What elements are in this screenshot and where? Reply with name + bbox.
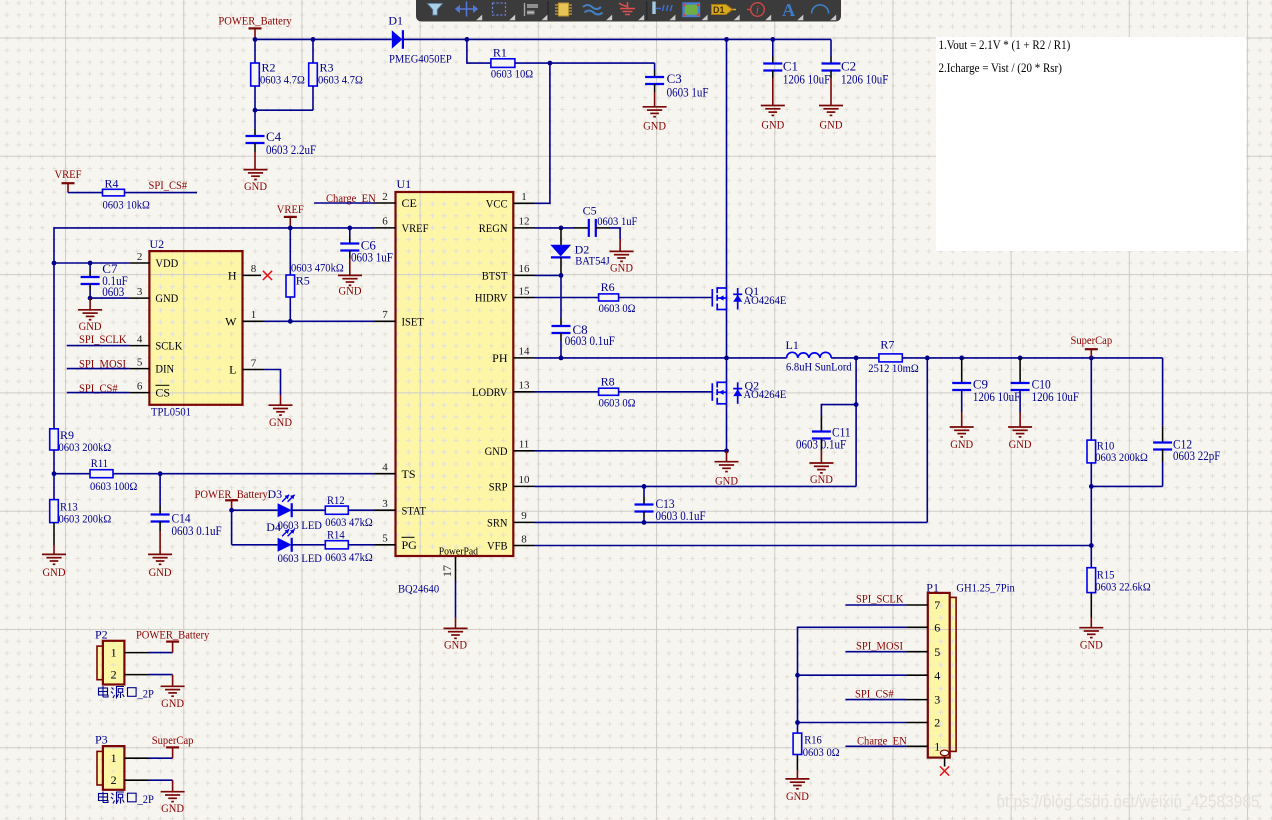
svg-text:6.8uH SunLord: 6.8uH SunLord xyxy=(786,360,852,374)
resistor R10 xyxy=(1087,438,1148,464)
wire xyxy=(796,755,798,771)
svg-text:5: 5 xyxy=(934,645,940,659)
svg-text:VCC: VCC xyxy=(486,196,508,210)
wire xyxy=(654,70,656,77)
wire xyxy=(610,228,620,239)
svg-text:4: 4 xyxy=(137,333,143,345)
wire xyxy=(560,318,562,326)
svg-text:GND: GND xyxy=(43,565,66,579)
wire xyxy=(726,404,728,451)
svg-text:0603 LED: 0603 LED xyxy=(278,518,323,532)
svg-text:_2P: _2P xyxy=(137,792,155,806)
wire xyxy=(535,297,599,299)
wire xyxy=(68,192,103,194)
wire xyxy=(124,779,148,781)
wire xyxy=(243,369,264,371)
svg-text:0603 200kΩ: 0603 200kΩ xyxy=(1095,450,1148,464)
wire xyxy=(596,227,610,229)
wire xyxy=(619,297,713,299)
svg-text:C3: C3 xyxy=(667,71,682,86)
svg-text:VREF: VREF xyxy=(277,202,304,216)
svg-text:0603 47kΩ: 0603 47kΩ xyxy=(325,550,372,564)
svg-text:13: 13 xyxy=(519,380,531,392)
svg-text:PG: PG xyxy=(402,538,418,552)
wire xyxy=(375,509,396,511)
wire xyxy=(231,510,233,545)
wire xyxy=(67,345,130,347)
svg-text:P2: P2 xyxy=(95,627,108,641)
wire xyxy=(243,274,262,276)
LED D3 xyxy=(268,487,323,532)
svg-text:1206 10uF: 1206 10uF xyxy=(841,72,888,86)
wire xyxy=(53,545,55,554)
wire xyxy=(255,38,392,40)
ground xyxy=(78,310,102,333)
junction xyxy=(88,296,93,301)
wire xyxy=(961,358,963,383)
wire xyxy=(455,618,457,629)
wire xyxy=(130,392,150,394)
wire xyxy=(404,38,831,40)
junction xyxy=(770,37,775,42)
capacitor C1 xyxy=(763,59,830,87)
wire xyxy=(906,626,927,628)
wire xyxy=(289,228,291,275)
IC U2 TPL0501 xyxy=(137,237,257,419)
svg-text:A: A xyxy=(782,0,795,20)
no-ERC marker xyxy=(940,766,949,775)
svg-text:C2: C2 xyxy=(841,59,856,74)
svg-text:6: 6 xyxy=(137,380,143,392)
wire xyxy=(124,674,148,676)
no-ERC marker xyxy=(263,271,272,280)
wire xyxy=(821,405,856,417)
svg-text:GND: GND xyxy=(155,291,178,305)
junction xyxy=(724,448,729,453)
connector P2 2P xyxy=(95,627,124,684)
capacitor C9 xyxy=(952,377,1020,405)
toolbar xyxy=(416,0,841,22)
svg-text:ISET: ISET xyxy=(402,314,425,328)
svg-text:POWER_Battery: POWER_Battery xyxy=(195,487,268,501)
wire xyxy=(560,275,562,318)
svg-text:0603 1uF: 0603 1uF xyxy=(351,251,393,265)
svg-text:https://blog.csdn.net/weixin_4: https://blog.csdn.net/weixin_42583985 xyxy=(996,792,1259,811)
svg-text:0603 0Ω: 0603 0Ω xyxy=(599,301,636,315)
wire xyxy=(67,368,130,370)
svg-text:0603 1uF: 0603 1uF xyxy=(597,214,637,228)
svg-text:VREF: VREF xyxy=(402,221,429,235)
svg-text:3: 3 xyxy=(382,498,388,510)
wire xyxy=(89,291,91,298)
power port VREF xyxy=(277,202,304,228)
svg-text:LODRV: LODRV xyxy=(472,385,508,399)
wire xyxy=(54,473,90,475)
svg-text:7: 7 xyxy=(251,357,257,369)
resistor R14 xyxy=(325,528,372,564)
junction xyxy=(724,37,729,42)
svg-text:L: L xyxy=(229,363,236,377)
wire xyxy=(513,297,534,299)
wire xyxy=(906,651,927,653)
svg-text:PowerPad: PowerPad xyxy=(439,545,479,557)
svg-text:11: 11 xyxy=(519,439,530,451)
wire xyxy=(726,451,728,462)
wire xyxy=(292,509,326,511)
wire xyxy=(130,262,150,264)
svg-text:0603 LED: 0603 LED xyxy=(278,551,323,565)
power port VREF xyxy=(55,167,82,193)
svg-text:6: 6 xyxy=(934,620,940,634)
svg-text:GND: GND xyxy=(1080,638,1103,652)
wire xyxy=(513,227,534,229)
power port SuperCap xyxy=(152,733,194,758)
ground xyxy=(161,686,185,710)
diode D1 xyxy=(388,13,452,65)
ground xyxy=(761,106,785,132)
svg-text:2: 2 xyxy=(111,668,117,682)
wire xyxy=(798,674,907,676)
svg-text:D1: D1 xyxy=(713,5,725,15)
svg-text:1: 1 xyxy=(934,739,940,753)
svg-text:0603 10kΩ: 0603 10kΩ xyxy=(103,198,150,212)
svg-text:R11: R11 xyxy=(91,456,108,470)
power port POWER_Battery xyxy=(195,487,268,510)
svg-text:GND: GND xyxy=(244,179,267,193)
wire xyxy=(726,310,728,358)
svg-text:2512 10mΩ: 2512 10mΩ xyxy=(868,361,918,375)
wire xyxy=(375,473,396,475)
svg-text:R1: R1 xyxy=(493,46,507,60)
resistor R12 xyxy=(325,493,372,529)
wire xyxy=(243,320,264,322)
capacitor C6 xyxy=(340,238,393,265)
wire xyxy=(348,509,374,511)
wire xyxy=(348,544,374,546)
svg-text:U2: U2 xyxy=(150,237,165,251)
ground xyxy=(950,427,974,451)
wire xyxy=(906,745,927,747)
wire xyxy=(1162,358,1164,426)
wire xyxy=(654,92,656,107)
wire xyxy=(312,86,314,110)
capacitor C10 xyxy=(1011,377,1079,405)
wire xyxy=(172,780,174,792)
wire xyxy=(280,395,282,405)
wire xyxy=(906,722,927,724)
wire xyxy=(845,604,906,606)
svg-text:7: 7 xyxy=(382,309,388,321)
wire xyxy=(1019,358,1021,383)
svg-text:GND: GND xyxy=(820,118,843,132)
ground xyxy=(444,628,468,651)
svg-text:1206 10uF: 1206 10uF xyxy=(1032,390,1079,404)
svg-text:GH1.25_7Pin: GH1.25_7Pin xyxy=(956,580,1014,594)
svg-text:R5: R5 xyxy=(296,274,310,288)
junction xyxy=(925,356,930,361)
svg-text:SPI_MOSI: SPI_MOSI xyxy=(856,638,903,652)
svg-text:R14: R14 xyxy=(327,528,345,542)
svg-text:_2P: _2P xyxy=(137,687,155,701)
svg-text:TPL0501: TPL0501 xyxy=(151,405,191,419)
wire xyxy=(254,39,256,63)
wire xyxy=(54,262,130,264)
wire xyxy=(513,545,534,547)
wire xyxy=(292,544,326,546)
wire xyxy=(906,674,927,676)
wire xyxy=(1162,426,1164,443)
resistor R16 xyxy=(793,733,840,759)
transistor Q1 AO4264E xyxy=(712,284,786,310)
svg-text:GND: GND xyxy=(715,474,738,488)
resistor R6 xyxy=(599,280,636,315)
ground xyxy=(610,251,634,274)
wire xyxy=(535,485,857,487)
svg-text:L1: L1 xyxy=(786,338,799,352)
wire xyxy=(1162,450,1164,463)
svg-text:5: 5 xyxy=(382,533,388,545)
svg-text:CE: CE xyxy=(402,196,417,210)
wire xyxy=(1091,485,1162,487)
wire xyxy=(845,745,906,747)
wire xyxy=(149,757,173,759)
svg-text:GND: GND xyxy=(161,801,184,815)
wire xyxy=(560,257,562,275)
wire xyxy=(90,297,130,299)
svg-text:POWER_Battery: POWER_Battery xyxy=(136,627,209,641)
svg-text:W: W xyxy=(225,314,237,328)
svg-text:P3: P3 xyxy=(95,733,108,747)
wire xyxy=(772,78,774,106)
resistor R4 xyxy=(103,176,150,211)
wire xyxy=(845,651,906,653)
resistor R2 xyxy=(251,61,305,87)
resistor R7 xyxy=(868,337,918,375)
resistor R9 xyxy=(50,428,112,454)
junction xyxy=(229,508,234,513)
junction xyxy=(88,261,93,266)
capacitor C3 xyxy=(645,71,708,99)
power port SuperCap xyxy=(1070,333,1112,358)
wire xyxy=(513,202,534,204)
svg-text:8: 8 xyxy=(251,263,257,275)
svg-text:i: i xyxy=(756,5,759,17)
svg-text:PH: PH xyxy=(492,351,508,365)
svg-text:R6: R6 xyxy=(601,280,615,294)
svg-text:1: 1 xyxy=(251,309,257,321)
svg-text:2.Icharge = Vist / (20 * Rsr): 2.Icharge = Vist / (20 * Rsr) xyxy=(939,61,1062,75)
junction xyxy=(642,484,647,489)
wire xyxy=(67,392,130,394)
svg-text:0603 200kΩ: 0603 200kΩ xyxy=(59,440,112,454)
wire xyxy=(375,227,396,229)
wire xyxy=(560,333,562,341)
wire xyxy=(643,497,645,505)
resistor R15 xyxy=(1087,567,1151,593)
resistor R13 xyxy=(50,500,112,526)
LED D4 xyxy=(266,520,322,565)
ground xyxy=(338,275,362,297)
svg-text:15: 15 xyxy=(519,285,531,297)
wire xyxy=(944,758,946,767)
junction xyxy=(52,261,57,266)
svg-text:0603 470kΩ: 0603 470kΩ xyxy=(291,261,344,275)
wire xyxy=(619,239,621,251)
svg-text:SRP: SRP xyxy=(489,480,508,494)
wire xyxy=(961,412,963,427)
svg-text:5: 5 xyxy=(137,356,143,368)
wire xyxy=(1162,462,1164,486)
wire xyxy=(560,228,562,245)
ground xyxy=(148,554,172,579)
svg-text:GND: GND xyxy=(610,261,633,275)
resistor R3 xyxy=(309,61,363,87)
wire xyxy=(1019,412,1021,427)
wire xyxy=(535,63,550,203)
wire xyxy=(535,227,574,229)
wire xyxy=(830,57,832,64)
svg-text:0603 22pF: 0603 22pF xyxy=(1173,449,1220,463)
wire xyxy=(53,523,55,545)
wire xyxy=(515,62,655,64)
svg-text:H: H xyxy=(228,269,237,283)
ground xyxy=(819,106,843,132)
svg-text:GND: GND xyxy=(761,118,784,132)
svg-text:1: 1 xyxy=(111,751,117,765)
wire xyxy=(349,228,351,237)
resistor R1 xyxy=(491,46,533,81)
wire xyxy=(961,390,963,412)
wire xyxy=(535,357,787,359)
wire xyxy=(254,152,256,170)
svg-text:0603 0.1uF: 0603 0.1uF xyxy=(565,334,615,348)
wire xyxy=(513,357,534,359)
ground xyxy=(244,170,268,193)
wire xyxy=(1019,390,1021,412)
wire xyxy=(831,357,879,359)
svg-text:SuperCap: SuperCap xyxy=(152,733,194,747)
svg-text:3: 3 xyxy=(137,286,143,298)
svg-text:GND: GND xyxy=(643,119,666,133)
wire xyxy=(254,110,256,129)
svg-text:1: 1 xyxy=(111,646,117,660)
junction xyxy=(253,108,258,113)
capacitor C12 xyxy=(1153,437,1220,464)
wire xyxy=(643,512,645,518)
capacitor C2 xyxy=(822,59,889,87)
svg-text:10: 10 xyxy=(519,474,531,486)
svg-text:0603 4.7Ω: 0603 4.7Ω xyxy=(318,73,363,87)
junction xyxy=(52,471,57,476)
wire xyxy=(830,78,832,106)
svg-text:1206 10uF: 1206 10uF xyxy=(973,390,1020,404)
svg-text:9: 9 xyxy=(521,510,527,522)
wire xyxy=(254,143,256,152)
svg-text:PMEG4050EP: PMEG4050EP xyxy=(389,52,452,66)
junction xyxy=(288,319,293,324)
wire xyxy=(159,531,161,554)
svg-text:4: 4 xyxy=(382,462,388,474)
wire xyxy=(643,517,645,522)
svg-text:HIDRV: HIDRV xyxy=(475,291,508,305)
wire xyxy=(1090,463,1092,487)
svg-text:0603 1uF: 0603 1uF xyxy=(667,85,709,99)
svg-text:12: 12 xyxy=(519,216,530,228)
wire xyxy=(125,192,198,194)
svg-text:VREF: VREF xyxy=(55,167,82,181)
svg-text:4: 4 xyxy=(934,668,940,682)
junction xyxy=(559,356,564,361)
wire xyxy=(130,297,150,299)
svg-text:1.Vout = 2.1V * (1 + R2 / R1): 1.Vout = 2.1V * (1 + R2 / R1) xyxy=(939,38,1071,52)
wire xyxy=(535,450,727,452)
wire xyxy=(264,320,375,322)
power port POWER_Battery xyxy=(218,14,291,40)
wire xyxy=(89,263,91,270)
wire xyxy=(159,522,161,532)
junction xyxy=(1089,543,1094,548)
junction xyxy=(253,37,258,42)
svg-text:R8: R8 xyxy=(601,374,615,388)
svg-text:BAT54J: BAT54J xyxy=(575,254,610,268)
wire xyxy=(573,227,589,229)
label 电源口_2P xyxy=(99,686,155,701)
wire xyxy=(772,71,774,79)
wire xyxy=(798,722,907,724)
capacitor C7 xyxy=(81,261,128,299)
svg-text:D3: D3 xyxy=(268,487,283,501)
junction xyxy=(1089,356,1094,361)
wire xyxy=(1090,358,1092,440)
svg-text:GND: GND xyxy=(485,444,508,458)
capacitor C13 xyxy=(635,496,706,523)
wire xyxy=(375,202,396,204)
diode D2 BAT54J xyxy=(550,243,610,268)
svg-text:C1: C1 xyxy=(783,59,798,74)
wire xyxy=(149,674,173,676)
svg-text:R7: R7 xyxy=(880,337,894,351)
svg-text:0603 0.1uF: 0603 0.1uF xyxy=(172,524,222,538)
svg-text:1206 10uF: 1206 10uF xyxy=(783,72,830,86)
junction xyxy=(959,356,964,361)
inductor L1 xyxy=(786,338,852,374)
wire xyxy=(349,237,351,244)
svg-text:R4: R4 xyxy=(105,176,119,190)
wire xyxy=(796,770,798,779)
wire xyxy=(654,84,656,92)
junction xyxy=(559,273,564,278)
ground xyxy=(785,779,809,803)
svg-text:TS: TS xyxy=(402,467,416,481)
junction xyxy=(311,37,316,42)
wire xyxy=(289,297,291,321)
wire xyxy=(53,428,55,430)
wire xyxy=(159,474,161,506)
svg-text:0603: 0603 xyxy=(102,285,124,299)
ground xyxy=(161,792,185,815)
svg-text:GND: GND xyxy=(444,638,467,652)
junction xyxy=(1018,356,1023,361)
wire xyxy=(375,544,396,546)
svg-text:GND: GND xyxy=(950,437,973,451)
svg-text:SRN: SRN xyxy=(487,516,508,530)
svg-text:0603 2.2uF: 0603 2.2uF xyxy=(266,143,316,157)
connector P1 GH1.25_7Pin xyxy=(926,580,1015,757)
wire xyxy=(1090,546,1092,568)
svg-text:0603 0Ω: 0603 0Ω xyxy=(803,745,840,759)
svg-text:GND: GND xyxy=(79,319,102,333)
ground xyxy=(643,107,667,133)
